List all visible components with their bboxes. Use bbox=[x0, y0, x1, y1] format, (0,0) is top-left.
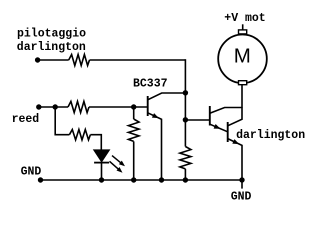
node junction bbox=[53, 104, 58, 109]
wire bbox=[90, 59, 186, 61]
motor M1 top terminal bbox=[239, 30, 247, 34]
resistor R1 (pilotaggio series) bbox=[69, 55, 90, 66]
wire bbox=[89, 106, 148, 108]
LED D1 cathode bar bbox=[94, 162, 109, 164]
node GND terminal bbox=[38, 177, 43, 182]
svg-text:GND: GND bbox=[231, 190, 252, 203]
wire GND stub bbox=[241, 180, 243, 189]
resistor R2 (reed to base) bbox=[68, 101, 89, 112]
svg-text:pilotaggio: pilotaggio bbox=[17, 28, 86, 41]
node collector junction bbox=[183, 90, 188, 95]
resistor R5 (darlington base pulldown) bbox=[180, 147, 191, 169]
node bbox=[183, 177, 188, 182]
wire bbox=[38, 59, 69, 61]
LED emission arrow 1 bbox=[112, 156, 123, 165]
node pilotaggio terminal bbox=[35, 57, 40, 62]
Q2 collector bbox=[210, 108, 242, 114]
LED emission arrow 2 bbox=[110, 161, 121, 171]
node reed terminal bbox=[36, 104, 41, 109]
wire bbox=[184, 59, 186, 146]
svg-text:GND: GND bbox=[21, 165, 42, 178]
resistor R4 (base pulldown) bbox=[128, 119, 139, 141]
resistor R3 (LED series) bbox=[69, 130, 90, 140]
wire darlington base bbox=[185, 119, 209, 121]
node bbox=[239, 177, 244, 182]
node bbox=[131, 177, 136, 182]
wire +V stub bbox=[242, 24, 244, 30]
svg-text:reed: reed bbox=[12, 113, 40, 126]
node base junction bbox=[131, 104, 136, 109]
Q3 emitter bbox=[228, 139, 242, 180]
node bbox=[159, 177, 164, 182]
Q1 emitter bbox=[148, 113, 162, 180]
wire bbox=[184, 169, 186, 180]
wire GND rail bbox=[41, 179, 243, 181]
Q2 emitter bbox=[210, 124, 228, 132]
LED D1 anode triangle bbox=[94, 150, 110, 162]
wire bbox=[133, 141, 135, 180]
wire bbox=[133, 107, 135, 119]
svg-text:+V mot: +V mot bbox=[224, 12, 265, 25]
motor M1 body bbox=[218, 35, 267, 84]
wire bbox=[55, 107, 69, 135]
svg-text:darlington: darlington bbox=[236, 129, 305, 142]
transistor Q3 base bar bbox=[227, 122, 229, 142]
wire motor to collector bbox=[241, 85, 243, 108]
Q3 collector bbox=[228, 107, 242, 126]
transistor Q2 base bar bbox=[209, 106, 211, 126]
wire bbox=[101, 163, 103, 180]
svg-text:M: M bbox=[234, 45, 251, 68]
motor M1 bottom terminal bbox=[239, 81, 247, 85]
wire bbox=[39, 106, 68, 108]
Q1 collector bbox=[148, 93, 186, 100]
node base-drive junction bbox=[183, 117, 188, 122]
node bbox=[99, 177, 104, 182]
svg-text:BC337: BC337 bbox=[133, 77, 168, 90]
wire bbox=[90, 135, 101, 151]
transistor Q1 BC337 base bar bbox=[147, 96, 149, 116]
svg-text:darlington: darlington bbox=[17, 41, 86, 54]
